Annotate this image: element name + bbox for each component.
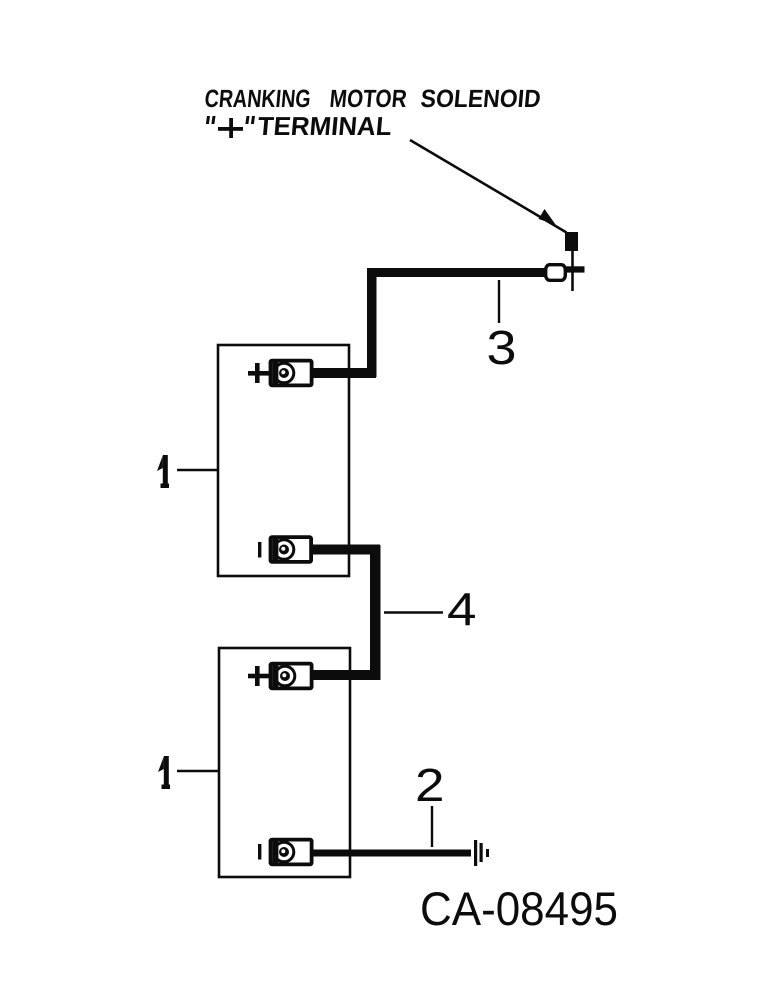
- label 1 (lower battery): [158, 756, 170, 789]
- battery 2 minus terminal clamp: [271, 840, 312, 865]
- leader line for upper label 1: [177, 469, 219, 471]
- label 1 (upper battery): [157, 455, 169, 488]
- leader line for label 4: [384, 611, 443, 613]
- svg-text:MOTOR: MOTOR: [328, 85, 407, 113]
- wire 3 horizontal run: [367, 268, 545, 277]
- solenoid terminal block (black square): [565, 232, 578, 251]
- svg-text:4: 4: [447, 583, 477, 635]
- wire from battery 1 minus terminal: [310, 545, 380, 555]
- battery 2 plus terminal clamp: [271, 664, 312, 689]
- solenoid terminal cross (+): [563, 266, 585, 272]
- leader arrow to solenoid terminal: [410, 140, 567, 233]
- svg-text:3: 3: [487, 322, 517, 375]
- wire from battery 2 plus terminal: [310, 670, 380, 680]
- leader line for lower label 1: [177, 770, 220, 772]
- wire from battery 1 plus terminal: [310, 368, 376, 378]
- svg-text:2: 2: [415, 759, 445, 811]
- svg-text:TERMINAL: TERMINAL: [256, 111, 393, 141]
- battery 1 minus tick: [258, 542, 261, 558]
- wire 4 vertical run: [370, 545, 381, 680]
- svg-text:CA-08495: CA-08495: [420, 883, 618, 936]
- solenoid terminal stud line: [571, 251, 574, 291]
- label: CRANKING MOTOR SOLENOID: [203, 85, 541, 113]
- battery 1 plus terminal clamp: [271, 361, 312, 386]
- wire 2 end strands: [474, 840, 489, 866]
- battery 2 minus tick: [258, 844, 261, 860]
- battery 1 (upper) box: [218, 345, 349, 576]
- plus sign: [218, 127, 243, 131]
- battery 1 minus terminal clamp: [271, 537, 312, 562]
- battery 2 plus sign: [248, 666, 269, 686]
- svg-text:CRANKING: CRANKING: [203, 85, 311, 113]
- cable lug at solenoid end: [546, 265, 566, 281]
- wire 2 horizontal run: [311, 850, 471, 857]
- opening quote: [206, 116, 210, 124]
- svg-text:SOLENOID: SOLENOID: [419, 85, 541, 113]
- wire 3 vertical run: [367, 268, 377, 377]
- battery 1 plus sign: [248, 363, 269, 383]
- leader line for label 3: [498, 280, 500, 323]
- battery 2 (lower) box: [219, 648, 350, 877]
- closing quote: [245, 116, 249, 124]
- leader line for label 2: [431, 806, 433, 847]
- label: "+" TERMINAL: [206, 111, 393, 141]
